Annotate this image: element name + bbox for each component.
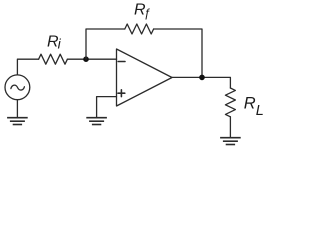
node B (output junction)	[199, 75, 205, 81]
svg-text:L: L	[256, 103, 264, 119]
node A (inverting input junction)	[83, 56, 89, 62]
wire node A up to feedback row	[86, 29, 125, 59]
ac source V1	[5, 75, 30, 100]
svg-text:i: i	[58, 36, 62, 52]
op-amp U1 triangle	[117, 49, 173, 106]
label Ri	[47, 34, 62, 52]
ground (RL)	[220, 138, 241, 145]
ground (source)	[7, 118, 28, 125]
label Rf	[134, 2, 151, 21]
wire op-amp output to RL	[172, 77, 230, 88]
svg-text:R: R	[244, 95, 256, 113]
minus sign (inverting input)	[118, 61, 125, 63]
resistor Ri	[39, 54, 68, 64]
ground (op-amp + input)	[86, 118, 107, 125]
wire source bottom to ground	[16, 100, 18, 118]
resistor Rf	[125, 24, 154, 34]
label RL	[244, 95, 264, 119]
plus sign (non-inverting input)	[118, 90, 125, 97]
sine wave of source	[11, 85, 25, 90]
wire RL to ground	[229, 117, 231, 138]
svg-text:ƒ: ƒ	[144, 6, 151, 20]
resistor RL	[225, 88, 235, 117]
wire source top to input row	[17, 59, 38, 75]
wire non-inverting input to ground	[97, 97, 117, 118]
wire Ri to node A	[67, 58, 116, 60]
wire Rf to output node	[154, 29, 202, 77]
